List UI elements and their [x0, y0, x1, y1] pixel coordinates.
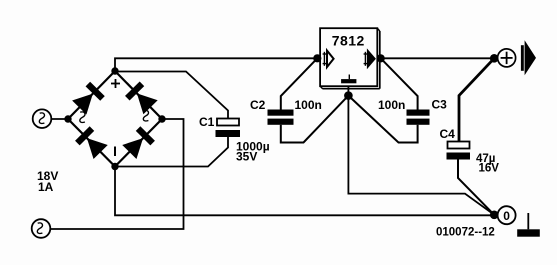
+ output arrow symbol	[521, 40, 536, 75]
bridge arm wires (diamond)	[68, 71, 162, 167]
node regulator input	[313, 54, 321, 62]
bridge - mark (vertical tick)	[114, 147, 116, 157]
node regulator ground	[344, 91, 353, 100]
node 0 output junction	[490, 211, 499, 220]
node right ac	[158, 115, 165, 122]
node + output junction	[490, 54, 499, 63]
diode D1 (bottom-left arm, points to left AC node)	[75, 126, 108, 159]
ground symbol at 0 terminal	[517, 213, 540, 237]
wire bridge + node to C1 top	[115, 72, 228, 119]
wire bridge - node to C1 bottom	[115, 137, 228, 167]
capacitor C3 (100n)	[407, 110, 430, 125]
node regulator output	[377, 54, 385, 62]
wire bottom rail: bridge - node to 0 terminal	[115, 167, 494, 216]
wire regulator input to C2 top	[281, 58, 318, 109]
svg-text:100n: 100n	[378, 98, 405, 112]
0 output terminal circle	[498, 206, 516, 224]
wire top rail: bridge + node up and right to regulator input	[115, 58, 317, 71]
diode D4 (bottom-right arm, points to right AC node)	[122, 126, 155, 159]
svg-text:010072--12: 010072--12	[436, 227, 495, 239]
wire regulator output rail to + terminal	[381, 57, 495, 59]
capacitor C1 (electrolytic 1000u/35V)	[216, 119, 241, 138]
wire regulator ground down to 0 terminal	[348, 86, 494, 214]
AC input terminal top (circle with sine squiggle)	[33, 109, 52, 128]
capacitor C4 (electrolytic 47u/16V)	[447, 142, 471, 160]
wire C4 bottom to 0 terminal	[458, 160, 494, 215]
svg-text:1A: 1A	[38, 180, 54, 194]
svg-text:35V: 35V	[236, 150, 257, 164]
wire bridge right node to AC bottom terminal	[50, 119, 183, 229]
regulator output pin symbol (bar + solid arrow)	[364, 50, 375, 67]
svg-text:100n: 100n	[295, 98, 322, 112]
diode D2 (top-left arm, points to + top node)	[72, 82, 105, 115]
bridge ~ mark right	[143, 110, 148, 121]
wire C2 bottom to regulator ground	[281, 96, 349, 143]
wire C3 bottom to regulator ground	[348, 96, 417, 143]
wire AC top to bridge left node	[51, 118, 68, 120]
node bottom (- dc)	[111, 163, 118, 170]
svg-text:C4: C4	[440, 127, 456, 141]
svg-text:16V: 16V	[479, 162, 500, 174]
regulator ground pin symbol	[341, 75, 356, 84]
regulator input pin symbol (bar + hollow arrow)	[323, 51, 334, 67]
wire regulator output to C3 top	[381, 58, 418, 109]
diode D3 (top-right arm, points to + top node)	[125, 82, 158, 115]
node left ac	[64, 115, 71, 122]
AC input terminal bottom (circle with sine squiggle)	[32, 219, 51, 238]
bridge + mark	[111, 79, 120, 88]
svg-text:C3: C3	[432, 98, 448, 112]
svg-text:7812: 7812	[332, 33, 365, 49]
wire + terminal to C4 top (thick diagonal)	[459, 58, 494, 141]
+ output terminal circle	[498, 49, 516, 67]
bridge ~ mark left	[80, 112, 85, 123]
svg-text:C2: C2	[250, 98, 266, 112]
node top (+ dc)	[111, 67, 118, 74]
capacitor C2 (100n)	[268, 110, 294, 125]
svg-text:0: 0	[503, 209, 510, 223]
regulator IC 7812 box	[320, 28, 380, 88]
svg-text:C1: C1	[199, 115, 215, 129]
